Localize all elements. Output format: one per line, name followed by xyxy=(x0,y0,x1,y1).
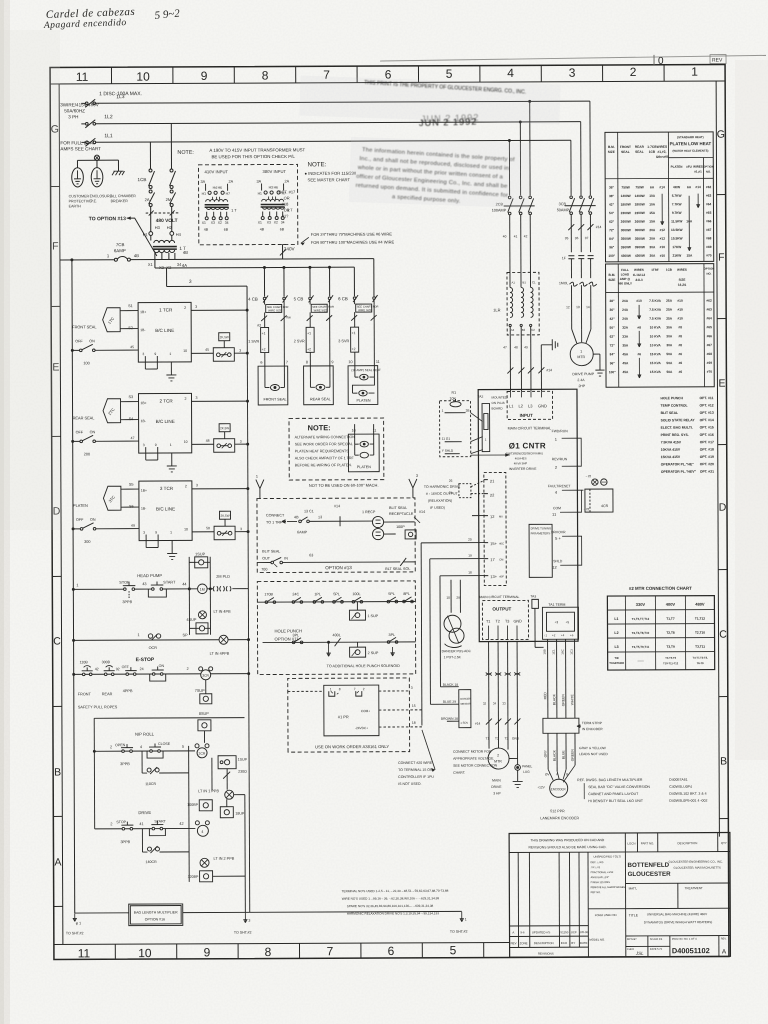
company name xyxy=(628,860,724,878)
protective earth circles xyxy=(72,168,84,187)
rung HEAD PUMP xyxy=(72,552,248,635)
scanner edge shading xyxy=(0,0,10,1024)
coil 18UP xyxy=(220,807,233,818)
box drive tuning parameters xyxy=(529,524,552,577)
rung hole punch 1 xyxy=(257,600,415,603)
node arrow 1 xyxy=(256,480,264,499)
right terminals xyxy=(548,429,571,570)
relay 4CR xyxy=(592,479,598,485)
motor 2 MTR xyxy=(488,748,509,769)
note alternate wiring box xyxy=(289,418,384,480)
ground at input xyxy=(540,345,542,391)
scan noise overlay xyxy=(0,0,1,1)
cad banner xyxy=(528,838,606,849)
wire bus 1L1 xyxy=(81,141,85,143)
relay 3 TCR xyxy=(72,481,249,560)
transformer 1T xyxy=(143,218,186,270)
line reactor 1LR xyxy=(507,272,539,335)
option 13 dashed box xyxy=(257,498,415,573)
platen alt box xyxy=(348,434,379,472)
contactor column REAR SEAL xyxy=(294,295,335,405)
wires output to motor xyxy=(488,642,490,749)
relay 2 TCR xyxy=(71,393,248,472)
terminal strip in encoder xyxy=(543,718,579,733)
node incoming supply text xyxy=(60,91,142,151)
scan artifact top edge xyxy=(380,54,766,68)
receptacle 1 RECP xyxy=(372,516,383,527)
chassis ground xyxy=(117,160,119,171)
hole punch option box xyxy=(257,581,415,675)
blue legal paragraph stamp xyxy=(355,147,515,208)
contactor column FRONT SEAL xyxy=(248,295,291,405)
terminal strip left xyxy=(484,472,506,585)
box BAG LENGTH MULTIPLIER OPTION #16 xyxy=(75,912,129,914)
relay 1 TCR xyxy=(71,302,248,381)
arrows to additional solenoid xyxy=(327,642,330,656)
encoder xyxy=(545,772,568,776)
breaker 2CB xyxy=(491,100,535,272)
wires strip to encoder xyxy=(547,733,549,769)
note connect motor voltage xyxy=(453,750,498,775)
contactor column PLATEN xyxy=(338,295,381,405)
transformer T-opt-B xyxy=(257,169,294,232)
op text harmonic drive xyxy=(424,485,461,510)
rail 3 xyxy=(167,285,247,287)
rung DRIVE xyxy=(95,810,210,864)
coil 1SUP xyxy=(188,557,190,635)
wire bus 1L2 xyxy=(81,123,85,125)
border frame xyxy=(50,65,729,960)
revision table xyxy=(587,852,589,957)
svg-text:JUN 2 1992: JUN 2 1992 xyxy=(421,112,480,124)
table platen low heat xyxy=(605,132,714,262)
tolerance block xyxy=(590,854,625,894)
wires to dancer xyxy=(472,515,484,517)
coil 1 SUP xyxy=(356,602,358,610)
note indicates xyxy=(304,161,356,182)
wire bus 1L3 xyxy=(81,102,85,104)
potentiometer dancer pos adj xyxy=(444,615,461,632)
note connect #20 wire xyxy=(398,761,434,786)
node arrow 3 xyxy=(409,479,417,498)
wire sub-bus xyxy=(94,717,244,720)
rung SP xyxy=(73,633,250,657)
work order dashed box xyxy=(288,678,410,752)
breaker 3CB xyxy=(556,101,601,252)
note terminal numbers xyxy=(342,889,449,916)
wire-size note xyxy=(311,231,395,244)
note transformer option xyxy=(177,147,305,159)
transformer T-opt-A xyxy=(201,169,238,232)
date stamp JUN 2 1992 xyxy=(419,112,480,128)
motor drive pump xyxy=(572,329,591,343)
control rail 240V xyxy=(60,259,114,261)
transformer option box (dashed) xyxy=(198,164,297,244)
terminal input box xyxy=(507,391,553,419)
left vertical bus xyxy=(72,260,75,913)
inverter #1 CNTR box xyxy=(478,389,578,641)
rung E-STOP xyxy=(73,657,250,710)
rung NIP ROLL xyxy=(93,731,209,786)
panel lug ground xyxy=(515,765,521,771)
wire bundle TA1 to encoder xyxy=(547,639,549,718)
branch 19UP xyxy=(188,746,191,882)
ref dwgs xyxy=(577,778,707,804)
switch blit seal xyxy=(271,561,274,564)
parts header xyxy=(636,833,638,852)
title block frame xyxy=(509,833,730,958)
table full load amps xyxy=(606,264,715,388)
bus right control xyxy=(247,311,250,913)
rung hole punch 2 xyxy=(263,641,416,644)
relay box 1 PR xyxy=(324,685,379,736)
